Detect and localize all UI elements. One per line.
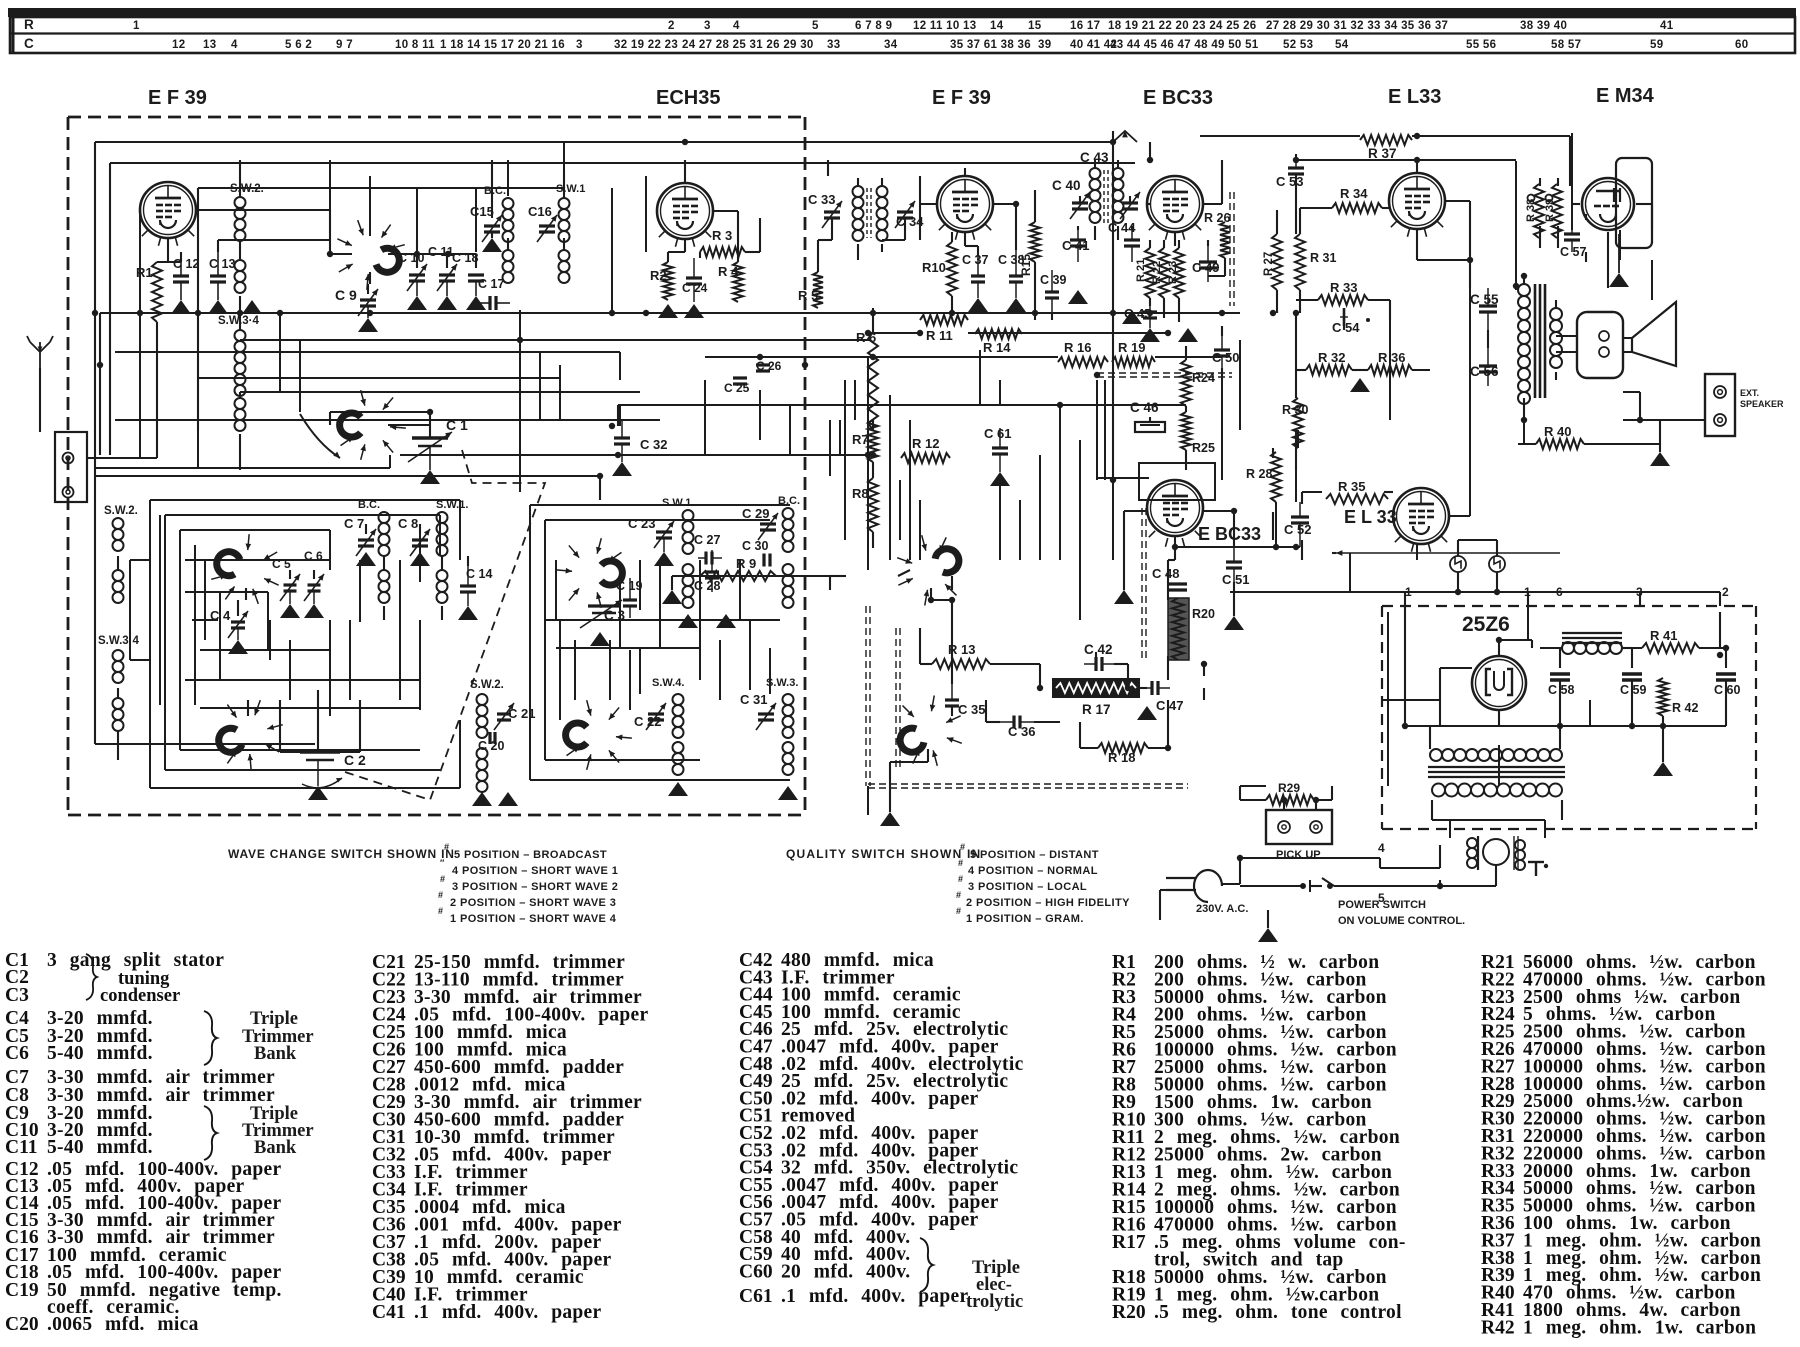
wire — [1498, 745, 1500, 786]
junction — [597, 473, 603, 479]
IF transformer 2 secondary coil — [1113, 168, 1124, 179]
wire — [1495, 865, 1497, 886]
output transformer secondary — [1550, 308, 1562, 320]
wave-change switch rotor C — [217, 552, 240, 576]
svg-text:34: 34 — [884, 39, 898, 51]
svg-text:5: 5 — [812, 20, 819, 32]
wire — [619, 405, 621, 426]
coil L20 — [783, 564, 794, 575]
wire — [599, 476, 601, 500]
grid cap circle R39 — [1546, 195, 1553, 202]
wire — [441, 556, 443, 570]
svg-text:2 POSITION – SHORT WAVE 3: 2 POSITION – SHORT WAVE 3 — [450, 897, 616, 909]
wire — [1178, 240, 1180, 248]
svg-text:.1 mfd. 400v. paper: .1 mfd. 400v. paper — [781, 1286, 969, 1307]
ground C32 — [612, 462, 632, 476]
svg-text:C41: C41 — [372, 1302, 406, 1323]
wire — [1389, 320, 1391, 420]
svg-text:1 18 14 15 17 20 21 16: 1 18 14 15 17 20 21 16 — [440, 39, 565, 51]
wire — [94, 142, 96, 744]
wire — [737, 211, 739, 252]
wire — [1185, 346, 1187, 360]
wire — [1439, 845, 1441, 868]
svg-text:.0065 mfd. mica: .0065 mfd. mica — [47, 1314, 199, 1335]
junction — [1414, 133, 1420, 139]
wire — [1208, 275, 1225, 277]
svg-text:trolytic: trolytic — [966, 1292, 1023, 1312]
wire — [1168, 559, 1175, 561]
wire — [1163, 240, 1165, 248]
svg-text:R 16: R 16 — [1064, 340, 1091, 355]
wire — [844, 380, 846, 540]
wire — [100, 312, 1240, 314]
wire — [194, 545, 196, 705]
wire — [1631, 648, 1633, 668]
svg-text:R 22: R 22 — [1151, 261, 1163, 284]
svg-text:C16: C16 — [528, 204, 552, 219]
junction — [1057, 402, 1063, 408]
wire — [1175, 546, 1300, 548]
coil L14 SW1 lower — [437, 512, 448, 523]
svg-text:32 19 22 23: 32 19 22 23 — [614, 39, 678, 51]
wire — [150, 787, 460, 789]
junction — [1032, 310, 1038, 316]
wire — [704, 380, 706, 455]
wire — [87, 457, 157, 459]
wire — [1412, 135, 1570, 137]
wire — [349, 620, 351, 700]
svg-text:5-40 mmfd.: 5-40 mmfd. — [47, 1043, 153, 1064]
svg-text:3 POSITION – SHORT WAVE 2: 3 POSITION – SHORT WAVE 2 — [452, 881, 618, 893]
svg-text:PICK UP: PICK UP — [1276, 849, 1321, 861]
wire — [1332, 552, 1336, 554]
svg-text:C 40: C 40 — [1052, 178, 1081, 193]
svg-text:C 59: C 59 — [1620, 683, 1646, 697]
wire — [872, 462, 874, 478]
svg-text:#: # — [956, 906, 961, 916]
wire — [1659, 420, 1661, 452]
svg-text:S.W.1.: S.W.1. — [662, 497, 694, 509]
svg-text:C 37: C 37 — [962, 253, 988, 267]
wire — [179, 530, 181, 750]
svg-text:C 30: C 30 — [742, 539, 768, 553]
wire — [1276, 210, 1278, 234]
wire — [881, 178, 883, 186]
wire — [400, 454, 868, 456]
wire — [1559, 726, 1561, 749]
svg-text:C 13: C 13 — [209, 257, 235, 271]
wire — [1233, 546, 1235, 547]
wire — [441, 606, 443, 620]
wire — [919, 176, 921, 240]
tube V5 EL33 output — [1389, 173, 1445, 229]
wire — [1224, 258, 1226, 276]
resistor R37 — [1360, 135, 1412, 145]
junction — [427, 409, 433, 415]
wire — [439, 515, 441, 556]
svg-text:C61: C61 — [739, 1286, 773, 1307]
ground for C6 — [304, 604, 324, 618]
wire — [619, 352, 621, 380]
junction — [1557, 723, 1563, 729]
svg-text:.5 meg. ohm. tone control: .5 meg. ohm. tone control — [1154, 1302, 1402, 1323]
wire — [1719, 592, 1721, 606]
svg-text:27 28 29 30 31 32 33 34 35 36: 27 28 29 30 31 32 33 34 35 36 37 — [1266, 20, 1448, 32]
output transformer core — [1534, 284, 1537, 398]
wire — [196, 209, 330, 211]
ground below quality switch — [880, 812, 900, 826]
svg-text:E BC33: E BC33 — [1143, 87, 1213, 109]
wire — [99, 313, 101, 455]
brace C9-C11 — [204, 1106, 217, 1160]
wire — [313, 570, 315, 579]
wire — [544, 520, 546, 760]
wire — [200, 649, 330, 651]
svg-text:Triple: Triple — [250, 1009, 298, 1029]
wire — [919, 500, 921, 560]
aerial/earth terminal block — [55, 432, 87, 502]
wire — [1622, 647, 1632, 649]
wire — [545, 759, 700, 761]
wire — [1458, 539, 1497, 541]
wire — [1240, 857, 1380, 859]
junction — [1110, 310, 1116, 316]
wire — [149, 500, 151, 788]
ground for C18 — [466, 296, 486, 310]
wire — [150, 499, 460, 501]
ground C47 — [1137, 706, 1157, 720]
svg-text:#: # — [438, 890, 443, 900]
wire — [619, 582, 621, 648]
ground R40 — [1650, 452, 1670, 466]
wire — [1149, 298, 1151, 306]
wire — [1221, 368, 1223, 380]
ground near L2 — [242, 300, 262, 314]
wire — [979, 350, 981, 405]
resistor R4 — [733, 262, 743, 302]
wire — [1148, 747, 1168, 749]
wire — [1160, 889, 1166, 891]
wire — [986, 721, 1000, 723]
brace C58-C60 — [920, 1238, 933, 1292]
svg-text:#: # — [958, 858, 963, 868]
shield double-dash bottom run — [868, 783, 1188, 785]
svg-text:C11: C11 — [5, 1137, 38, 1158]
svg-text:C 51: C 51 — [1222, 572, 1249, 587]
wire — [1725, 648, 1727, 668]
wire — [1233, 582, 1235, 616]
ground for C9 — [358, 318, 378, 332]
ground R9 — [662, 590, 682, 604]
wire — [329, 620, 331, 700]
antenna — [27, 336, 53, 368]
wire — [1651, 260, 1653, 300]
wire — [467, 556, 469, 566]
junction — [1125, 685, 1131, 691]
wire — [1557, 178, 1559, 186]
wire — [1117, 160, 1119, 168]
ground for C11 — [437, 296, 457, 310]
junction — [643, 310, 649, 316]
svg-text:E L 33: E L 33 — [1344, 507, 1397, 527]
svg-text:R25: R25 — [1192, 441, 1215, 455]
IF transformer 1 primary coil — [853, 186, 864, 197]
wire — [1267, 910, 1269, 912]
junction — [1660, 723, 1666, 729]
svg-text:R 36: R 36 — [1378, 350, 1405, 365]
svg-text:R 27: R 27 — [1263, 252, 1275, 276]
ground C45 — [1140, 328, 1160, 342]
wire — [1239, 786, 1241, 800]
svg-text:.1 mfd. 400v. paper: .1 mfd. 400v. paper — [414, 1302, 602, 1323]
svg-text:S.W.2.: S.W.2. — [104, 505, 138, 517]
resistor R8 — [868, 478, 878, 532]
wire — [889, 786, 891, 800]
wire — [507, 160, 509, 196]
wire — [219, 592, 221, 680]
wire — [1240, 885, 1303, 887]
svg-text:2 POSITION – HIGH FIDELITY: 2 POSITION – HIGH FIDELITY — [966, 897, 1130, 909]
wire — [1034, 262, 1036, 320]
svg-text:9 7: 9 7 — [336, 39, 353, 51]
ground for C4 — [228, 640, 248, 654]
svg-text:25Z6: 25Z6 — [1462, 613, 1510, 636]
wire — [1299, 290, 1301, 313]
wire — [867, 430, 869, 455]
svg-text:R1: R1 — [136, 265, 153, 280]
wire — [1239, 420, 1241, 430]
wire — [95, 467, 390, 469]
wire — [239, 240, 241, 260]
ground for C14 — [458, 606, 478, 620]
wire — [1571, 133, 1573, 230]
wire — [1557, 226, 1559, 248]
wire — [185, 591, 268, 593]
svg-text:E F 39: E F 39 — [932, 87, 991, 109]
ground R23 — [1178, 328, 1198, 342]
shield double-dash vertical left of quality switch — [865, 606, 867, 786]
wire — [1487, 330, 1489, 348]
wire — [279, 700, 281, 752]
resistor R1 — [152, 262, 162, 322]
junction — [802, 362, 808, 368]
wire — [1622, 647, 1642, 649]
junction — [949, 597, 955, 603]
ground C37 — [968, 298, 988, 312]
wire — [1404, 592, 1406, 606]
svg-text:R20: R20 — [1192, 607, 1215, 621]
wire — [868, 332, 920, 334]
svg-text:3 POSITION – LOCAL: 3 POSITION – LOCAL — [968, 881, 1087, 893]
ground under C15 — [482, 238, 502, 252]
wire — [1096, 380, 1098, 480]
wire — [289, 570, 291, 579]
wire — [1387, 612, 1389, 786]
svg-text:C 58: C 58 — [1548, 683, 1574, 697]
wire — [365, 524, 367, 534]
wire — [1384, 491, 1393, 493]
wire — [556, 647, 700, 649]
wire — [1379, 858, 1381, 868]
ground C21 — [498, 792, 518, 806]
resistor R38 vertical — [1534, 184, 1544, 238]
wire — [1131, 226, 1133, 230]
wire — [1440, 885, 1496, 887]
wire — [1295, 154, 1297, 160]
wave-change switch rotor A — [376, 248, 399, 272]
resistor R18 — [1098, 743, 1148, 753]
svg-text:55 56: 55 56 — [1466, 39, 1496, 51]
curved arrow near rotor B — [300, 414, 340, 458]
junction — [1237, 855, 1243, 861]
svg-text:R 40: R 40 — [1544, 424, 1571, 439]
junction — [1467, 257, 1473, 263]
junction — [1110, 477, 1116, 483]
svg-text:43 44 45 46 47 48 49 50 51: 43 44 45 46 47 48 49 50 51 — [1110, 39, 1259, 51]
junction — [1496, 637, 1502, 643]
wire — [739, 582, 741, 620]
svg-text:R 35: R 35 — [1338, 479, 1365, 494]
wire — [629, 650, 631, 710]
svg-text:4 POSITION – NORMAL: 4 POSITION – NORMAL — [968, 865, 1098, 877]
svg-text:R 28: R 28 — [1246, 467, 1272, 481]
volume control R17 slider block — [1052, 678, 1140, 698]
heater winding row 2 — [1432, 784, 1445, 797]
junction — [870, 354, 876, 360]
svg-text:38 39 40: 38 39 40 — [1520, 20, 1567, 32]
junction — [1494, 589, 1500, 595]
wire — [769, 648, 771, 694]
junction — [1110, 139, 1116, 145]
shield double-dash from EBC33 grid — [1141, 508, 1143, 658]
tube V4 EBC33 detector — [1147, 176, 1203, 232]
wire — [180, 749, 420, 751]
EM34 shield box — [1616, 158, 1652, 248]
wire — [1059, 405, 1061, 560]
wire — [117, 730, 119, 760]
wire — [459, 720, 461, 788]
ground mains — [1258, 928, 1278, 942]
wire — [110, 162, 1135, 164]
svg-text:R 26: R 26 — [1204, 211, 1230, 225]
wire — [1034, 721, 1060, 723]
wire — [1159, 890, 1161, 920]
wire — [507, 238, 509, 250]
wire — [1417, 259, 1470, 261]
svg-text:R 34: R 34 — [1340, 186, 1368, 201]
svg-text:R: R — [24, 17, 34, 32]
wire — [964, 168, 966, 176]
svg-text:SPEAKER: SPEAKER — [1740, 399, 1784, 409]
ground under C7 — [356, 552, 376, 566]
wire — [1296, 159, 1417, 161]
wire — [667, 252, 669, 262]
wire — [1221, 160, 1223, 204]
quality switch rotor H — [900, 728, 924, 752]
tube V3 EF39 IF amplifier — [937, 176, 993, 232]
wire — [889, 762, 891, 812]
wire — [180, 529, 330, 531]
wire — [491, 198, 493, 218]
ground for C3 — [590, 632, 610, 646]
svg-text:C 8: C 8 — [398, 516, 418, 531]
wire — [1295, 380, 1297, 398]
wire — [930, 588, 932, 600]
svg-text:R 19: R 19 — [1118, 340, 1145, 355]
junction — [870, 452, 876, 458]
wire — [239, 160, 241, 196]
svg-text:5 POSITION – BROADCAST: 5 POSITION – BROADCAST — [454, 849, 607, 861]
svg-text:B.C.: B.C. — [484, 185, 506, 197]
wire — [267, 592, 269, 650]
wire — [429, 412, 431, 438]
svg-text:52 53: 52 53 — [1283, 39, 1313, 51]
wire — [1127, 664, 1129, 688]
svg-text:6 7 8 9: 6 7 8 9 — [855, 20, 892, 32]
svg-text:C 33: C 33 — [808, 192, 835, 207]
resistor R12 — [901, 453, 950, 463]
wire — [737, 252, 739, 262]
svg-text:R 17: R 17 — [1082, 702, 1111, 717]
ground C41 — [1068, 290, 1088, 304]
wire — [185, 679, 420, 681]
svg-text:4 POSITION – SHORT WAVE 1: 4 POSITION – SHORT WAVE 1 — [452, 865, 618, 877]
wire — [671, 576, 673, 590]
wire — [1699, 647, 1726, 649]
wire — [419, 650, 421, 708]
svg-text:1 meg. ohm. 1w. carbon: 1 meg. ohm. 1w. carbon — [1523, 1317, 1756, 1338]
wire — [1233, 511, 1235, 546]
wire — [545, 519, 770, 521]
wire — [745, 251, 760, 253]
wire — [563, 170, 565, 198]
wire — [827, 160, 829, 176]
wire — [1019, 500, 1021, 560]
junction — [1437, 883, 1443, 889]
wire — [129, 560, 131, 660]
svg-text:4: 4 — [733, 20, 740, 32]
svg-text:R 42: R 42 — [1672, 701, 1698, 715]
resistor R9 — [700, 571, 776, 581]
junction — [1201, 661, 1207, 667]
wire — [1314, 799, 1332, 801]
wire — [1299, 208, 1301, 234]
wire — [1449, 820, 1451, 838]
wire — [817, 240, 819, 252]
wire — [872, 308, 874, 332]
wire — [1531, 640, 1533, 648]
tube V1 EF39 RF amplifier — [140, 182, 196, 238]
wire — [329, 210, 331, 254]
svg-text:#: # — [440, 874, 445, 884]
resistor R5 — [813, 272, 823, 308]
wire — [1496, 540, 1498, 556]
wire — [931, 599, 952, 601]
svg-text:16 17: 16 17 — [1070, 20, 1100, 32]
wire — [1240, 785, 1266, 787]
svg-text:C3: C3 — [5, 985, 29, 1006]
wire — [639, 648, 641, 694]
svg-text:2: 2 — [668, 20, 675, 32]
svg-text:18 19 21 22 20 23 24 25 26: 18 19 21 22 20 23 24 25 26 — [1108, 20, 1256, 32]
resistor R16 — [1058, 357, 1108, 367]
junction — [1293, 310, 1299, 316]
svg-text:C: C — [24, 36, 34, 51]
wire — [872, 420, 874, 430]
wire — [1527, 606, 1529, 640]
switch T symbol right — [1528, 861, 1544, 863]
wire — [388, 424, 430, 426]
